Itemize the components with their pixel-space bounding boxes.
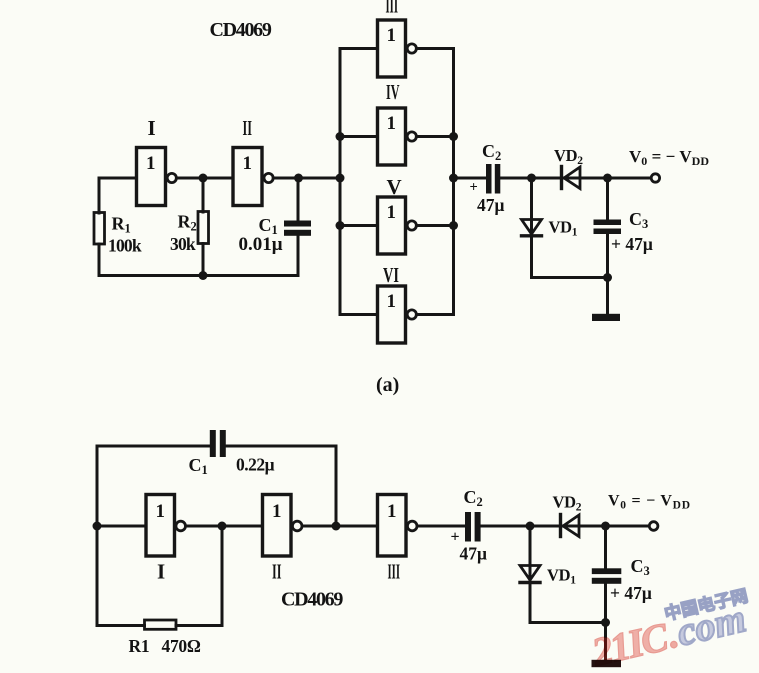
capacitor C3 (bottom circuit): [592, 568, 622, 584]
inverter U-VI: [378, 286, 417, 343]
wire C2 to node (bottom): [481, 525, 606, 528]
wire I output to II input: [176, 177, 232, 180]
inverter U-IV: [378, 108, 417, 165]
node junction rail-R2: [199, 271, 208, 280]
wire to terminal: [608, 177, 651, 180]
wire input left to inverter I: [99, 177, 137, 180]
wire left vertical (bottom circuit): [96, 446, 99, 626]
svg-text:II: II: [243, 116, 253, 140]
wire R1 bottom to rail: [98, 244, 101, 276]
node rightbus-main: [449, 174, 458, 183]
node left-main: [93, 522, 102, 531]
wire III output to right bus: [416, 47, 453, 50]
svg-text:+ 47μ: + 47μ: [610, 583, 652, 603]
svg-text:II: II: [272, 560, 282, 584]
wire II out to III in (bottom): [303, 525, 378, 528]
wire R2 bottom: [202, 244, 205, 276]
svg-text:I: I: [157, 560, 165, 584]
wire VI output to right bus: [416, 313, 453, 316]
wire to terminal (bottom): [606, 525, 650, 528]
svg-text:1: 1: [387, 113, 397, 134]
svg-text:VD1: VD1: [547, 566, 576, 587]
capacitor C1: [284, 221, 311, 236]
node C1 right branch: [332, 522, 341, 531]
svg-text:0.01μ: 0.01μ: [239, 234, 283, 255]
wire right bus vertical: [452, 49, 455, 315]
diode VD1: [522, 220, 542, 236]
node R1 branch top: [218, 522, 227, 531]
wire top loop left (bottom circuit): [97, 445, 210, 448]
svg-text:1: 1: [146, 153, 156, 174]
diode VD2 (bottom circuit): [561, 515, 580, 537]
terminal V0 (bottom): [649, 522, 658, 531]
svg-text:30k: 30k: [170, 234, 196, 254]
node out: [603, 174, 612, 183]
resistor R1: [94, 213, 105, 245]
ground (top circuit): [592, 278, 620, 322]
capacitor C2 (bottom circuit): [465, 512, 481, 542]
wire to inverter I: [97, 525, 146, 528]
svg-text:V: V: [387, 175, 402, 199]
svg-text:100k: 100k: [108, 236, 142, 256]
wire stub to V input: [340, 224, 378, 227]
node ground (bottom): [601, 618, 610, 627]
svg-text:1: 1: [156, 501, 166, 522]
inverter U-II: [233, 148, 273, 206]
wire stub to IV input: [340, 135, 378, 138]
wire C1 bottom: [297, 236, 300, 276]
svg-text:III: III: [388, 560, 401, 584]
inverter U-III: [378, 20, 417, 77]
wire bottom loop left: [97, 624, 145, 627]
svg-text:VI: VI: [383, 263, 399, 287]
capacitor C1 (bottom circuit): [210, 430, 226, 457]
wire III out to C2 (bottom): [418, 525, 465, 528]
resistor R2: [198, 212, 209, 244]
node junction at C1 top: [294, 174, 303, 183]
svg-text:I: I: [148, 116, 156, 140]
svg-text:III: III: [386, 0, 399, 18]
wire bottom rail: [99, 274, 298, 277]
svg-text:VD2: VD2: [553, 493, 582, 514]
svg-text:CD4069: CD4069: [281, 589, 343, 611]
wire R1 branch vertical: [221, 526, 224, 626]
capacitor C3: [594, 220, 622, 235]
node bus-IV: [336, 132, 345, 141]
inverter I (bottom circuit): [146, 495, 186, 557]
node bus-main: [336, 174, 345, 183]
wire VD1 stub: [530, 178, 533, 278]
wire R2 stub: [202, 178, 205, 212]
svg-text:C3: C3: [629, 209, 648, 231]
svg-text:47μ: 47μ: [460, 544, 488, 564]
wire bus to C2: [454, 177, 487, 180]
svg-text:1: 1: [387, 501, 397, 522]
inverter III (bottom circuit): [378, 495, 418, 557]
wire VD1 stub (bottom): [529, 526, 532, 623]
svg-text:1: 1: [272, 501, 282, 522]
svg-text:VD2: VD2: [554, 146, 583, 167]
svg-text:1: 1: [387, 202, 397, 223]
svg-text:+: +: [451, 529, 460, 546]
node out (bottom): [601, 522, 610, 531]
ground (bottom circuit): [592, 623, 622, 668]
svg-text:0.22μ: 0.22μ: [236, 455, 275, 475]
svg-text:+: +: [470, 180, 478, 196]
capacitor C2: [486, 164, 500, 194]
wire IV output to right bus: [416, 135, 453, 138]
node VD1 top (bottom): [526, 522, 535, 531]
wire I out to II in (bottom): [187, 525, 263, 528]
svg-text:V0 = − VDD: V0 = − VDD: [608, 493, 690, 512]
wire top loop right vertical: [335, 446, 338, 526]
svg-text:R1 470Ω: R1 470Ω: [129, 636, 201, 656]
resistor R1 (bottom circuit): [145, 620, 177, 629]
wire bottom right rail: [532, 276, 608, 279]
svg-text:C3: C3: [631, 556, 650, 578]
inverter U-I: [137, 148, 177, 206]
node junction at R2 top: [199, 174, 208, 183]
inverter U-V: [378, 197, 417, 254]
diode VD1 (bottom circuit): [520, 566, 540, 583]
inverter II (bottom circuit): [263, 495, 303, 557]
wire stub to VI input: [340, 313, 378, 316]
svg-text:47μ: 47μ: [477, 195, 505, 215]
svg-text:VD1: VD1: [549, 218, 578, 239]
watermark 21IC.com and chinese site name: [587, 585, 750, 673]
svg-text:1: 1: [243, 153, 253, 174]
wire bottom rail (bottom circuit): [530, 621, 606, 624]
wire C3 stub (bottom): [604, 526, 607, 569]
wire C3 stub: [606, 178, 609, 220]
diode VD2: [562, 167, 581, 189]
svg-text:+ 47μ: + 47μ: [611, 234, 653, 254]
wire left branch down to R1: [98, 178, 101, 213]
svg-text:R1: R1: [112, 214, 131, 236]
wire V output to right bus: [416, 224, 453, 227]
svg-text:R2: R2: [178, 212, 197, 234]
wire stub to III input: [340, 47, 378, 50]
svg-text:C1: C1: [189, 455, 208, 477]
svg-text:CD4069: CD4069: [210, 19, 272, 41]
wire II output to bus: [273, 177, 340, 180]
svg-text:(a): (a): [376, 374, 399, 396]
svg-text:IV: IV: [386, 80, 400, 104]
node rightbus-V: [449, 221, 458, 230]
node VD1 top: [527, 174, 536, 183]
svg-text:1: 1: [387, 291, 397, 312]
terminal V0: [651, 174, 659, 182]
svg-text:C2: C2: [464, 487, 483, 509]
wire left bus vertical: [339, 49, 342, 315]
wire bottom loop right: [176, 624, 222, 627]
wire C2 to node: [500, 177, 607, 180]
wire top loop right: [226, 445, 336, 448]
node bus-V: [336, 221, 345, 230]
wire C1 stub: [297, 178, 300, 221]
node rightbus-IV: [449, 132, 458, 141]
svg-text:V0 = − VDD: V0 = − VDD: [629, 147, 709, 168]
wire C3 bottom (bottom): [604, 584, 607, 623]
svg-text:1: 1: [387, 25, 397, 46]
node ground: [603, 273, 612, 282]
svg-text:C2: C2: [482, 141, 501, 163]
wire C3 bottom: [606, 234, 609, 278]
